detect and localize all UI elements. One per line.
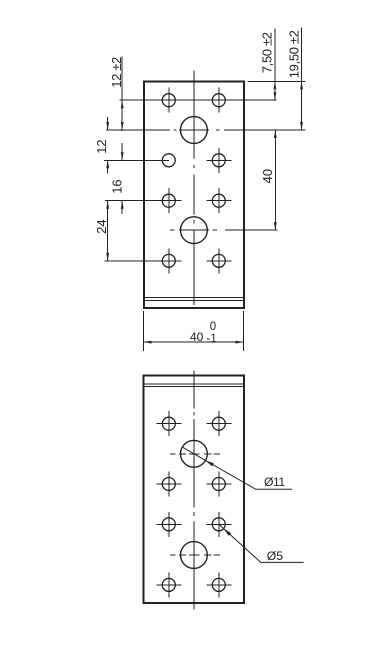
svg-text:16: 16: [110, 179, 125, 193]
svg-text:12 ±2: 12 ±2: [109, 57, 124, 88]
svg-text:12: 12: [94, 139, 109, 153]
svg-text:19,50 ±2: 19,50 ±2: [286, 30, 301, 78]
svg-text:40: 40: [260, 169, 275, 183]
svg-text:24: 24: [94, 219, 109, 233]
svg-text:Ø5: Ø5: [267, 549, 283, 563]
svg-text:7,50 ±2: 7,50 ±2: [260, 32, 275, 73]
svg-text:0: 0: [210, 321, 216, 333]
svg-text:40: 40: [190, 330, 204, 344]
svg-text:-1: -1: [207, 333, 217, 345]
svg-text:Ø11: Ø11: [264, 475, 285, 489]
